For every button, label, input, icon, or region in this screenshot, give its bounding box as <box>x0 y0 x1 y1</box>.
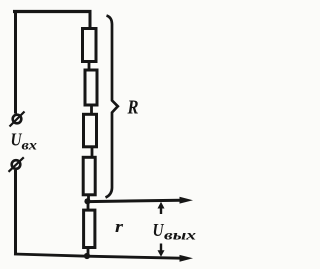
wire: bottom output with arrowhead <box>87 255 193 262</box>
wire: top horizontal <box>13 10 92 13</box>
label Uvyh (output voltage) <box>153 220 197 244</box>
terminal: input lower (circle with slash) <box>9 157 24 172</box>
arrow: Uvyh dimension up <box>158 202 165 214</box>
wire: stub from section 4 to tap junction <box>87 195 90 203</box>
resistor R section 2 <box>85 70 97 105</box>
wire: stub between section 2 and 3 <box>90 106 93 115</box>
brace grouping resistor sections as R <box>106 16 118 198</box>
svg-text:r: r <box>115 217 123 236</box>
svg-text:R: R <box>127 97 139 119</box>
svg-text:вх: вх <box>22 139 38 154</box>
arrow: Uvyh dimension down <box>158 244 165 257</box>
wire: bottom horizontal (left segment to junction) <box>14 254 87 256</box>
label Uvx (input voltage) <box>11 130 38 154</box>
terminal: input upper (circle with slash) <box>10 112 25 127</box>
resistor r <box>84 210 95 247</box>
svg-text:U: U <box>153 220 165 240</box>
junction node: divider tap <box>84 198 90 204</box>
wire: stub from tap junction into resistor r <box>87 202 90 211</box>
wire: top output with arrowhead <box>88 197 194 204</box>
svg-text:вых: вых <box>164 229 196 244</box>
resistor R section 1 <box>83 29 97 62</box>
resistor R section 4 <box>83 157 95 195</box>
resistor R section 3 <box>84 114 97 147</box>
wire: left vertical (upper input) <box>14 10 17 114</box>
wire: left vertical (lower input) <box>14 170 17 255</box>
junction node: bottom <box>84 253 90 259</box>
wire: stub from top wire into resistor chain <box>89 11 92 28</box>
wire: stub between section 1 and 2 <box>88 62 91 71</box>
wire: stub between section 3 and 4 <box>91 147 94 158</box>
wire: stub from resistor r to bottom junction <box>87 247 90 256</box>
